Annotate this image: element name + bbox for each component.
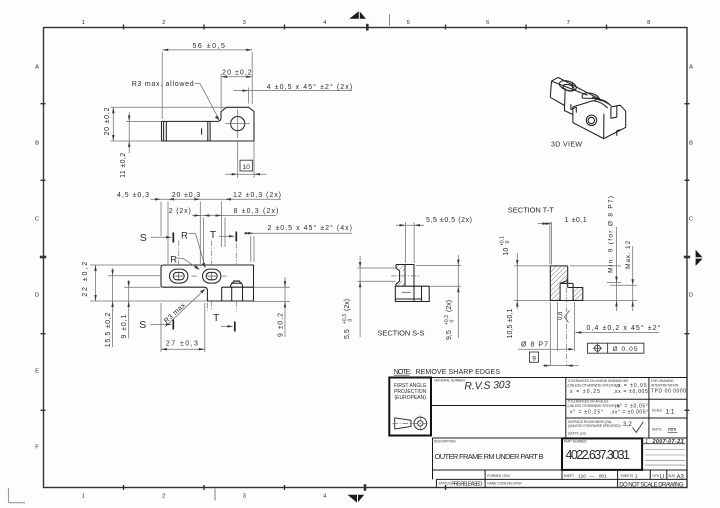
centering mark bottom bbox=[215, 489, 364, 503]
section mark S bottom bbox=[139, 319, 173, 331]
dimension 1 ±0,1 bbox=[538, 217, 587, 264]
svg-text:(UNLESS OTHERWISE SPECIFIED): (UNLESS OTHERWISE SPECIFIED) bbox=[568, 383, 621, 387]
svg-text:10: 10 bbox=[503, 248, 510, 256]
svg-text:(UNLESS OTHERWISE SPECIFIED): (UNLESS OTHERWISE SPECIFIED) bbox=[568, 404, 621, 408]
section mark T bottom bbox=[213, 312, 235, 332]
zone numbers top bbox=[82, 20, 651, 26]
leader R (inner) bbox=[170, 254, 200, 270]
dimension 5,5 ±0,5 (2x) above S-S bbox=[396, 217, 472, 263]
svg-text:20 ±0,2: 20 ±0,2 bbox=[222, 70, 252, 77]
svg-text:NOTE:: NOTE: bbox=[394, 369, 412, 376]
svg-text:4 ±0,5 x 45° ±2° (2x): 4 ±0,5 x 45° ±2° (2x) bbox=[267, 83, 353, 91]
svg-text:1: 1 bbox=[635, 474, 638, 480]
svg-text:7: 7 bbox=[567, 20, 570, 26]
svg-text:(UNLESS OTHERWISE SPECIFIED): (UNLESS OTHERWISE SPECIFIED) bbox=[568, 424, 621, 428]
svg-text:8 ±0,3 (2x): 8 ±0,3 (2x) bbox=[234, 208, 279, 215]
svg-text:SECTION T-T: SECTION T-T bbox=[508, 206, 554, 215]
dimension row 4,5 / 20 / 12 bbox=[117, 192, 281, 201]
zone letters left bbox=[35, 65, 39, 451]
svg-text:2: 2 bbox=[162, 20, 165, 26]
svg-text:TPD 00 0000: TPD 00 0000 bbox=[651, 389, 686, 395]
svg-text:3: 3 bbox=[243, 20, 246, 26]
svg-text:R: R bbox=[170, 254, 177, 265]
svg-text:—: — bbox=[590, 475, 595, 480]
svg-text:2 (2x): 2 (2x) bbox=[169, 208, 191, 215]
roughness 0,8 in hole bbox=[558, 311, 570, 323]
centering mark right bbox=[696, 250, 703, 266]
svg-text:FIRST ANGLE: FIRST ANGLE bbox=[394, 383, 427, 389]
front view boss dome bbox=[230, 281, 242, 287]
section S-S part bbox=[391, 265, 429, 302]
svg-text:DO NOT SCALE DRAWING: DO NOT SCALE DRAWING bbox=[619, 483, 684, 489]
front view slot 1 bbox=[170, 269, 188, 283]
position tolerance frame bbox=[588, 343, 644, 353]
title block grid bbox=[389, 378, 687, 488]
svg-text:x = ±0,25: x = ±0,25 bbox=[570, 389, 600, 395]
dimension row 2 (2x) / 8 bbox=[169, 208, 279, 217]
dimension 5,5 +0,3/0 (2x) left of S-S bbox=[342, 256, 396, 339]
svg-text:0,8: 0,8 bbox=[558, 311, 564, 320]
svg-text:9 ±0,2: 9 ±0,2 bbox=[277, 313, 284, 337]
centering mark top bbox=[349, 11, 389, 26]
corner crop mark bottom-left bbox=[9, 488, 26, 503]
svg-text:3: 3 bbox=[243, 494, 246, 500]
revision table bbox=[642, 439, 685, 465]
svg-text:B: B bbox=[35, 141, 39, 147]
svg-text:S: S bbox=[140, 232, 147, 244]
svg-text:20 ±0,3: 20 ±0,3 bbox=[172, 192, 201, 199]
svg-text:56 ±0,5: 56 ±0,5 bbox=[192, 43, 225, 50]
units mm bbox=[652, 427, 678, 433]
svg-text:6: 6 bbox=[486, 20, 489, 26]
svg-text:9: 9 bbox=[532, 355, 536, 362]
svg-text:Max. 12: Max. 12 bbox=[625, 241, 632, 269]
extension lines above part bbox=[161, 202, 254, 265]
dimension 9 ±0,2 (right) bbox=[254, 277, 291, 337]
svg-text:R: R bbox=[181, 230, 188, 241]
svg-text:15,5 ±0,2: 15,5 ±0,2 bbox=[105, 313, 112, 348]
svg-text:001: 001 bbox=[599, 474, 607, 480]
svg-text:2007-07-23: 2007-07-23 bbox=[652, 439, 684, 445]
svg-text:D: D bbox=[689, 293, 693, 299]
svg-text:REMOVE SHARP EDGES: REMOVE SHARP EDGES bbox=[416, 369, 501, 376]
dimension 22 ±0,2 (left) bbox=[82, 262, 207, 301]
zone ticks left bbox=[40, 104, 46, 411]
svg-text:0,4 ±0,2 x 45° ±2°: 0,4 ±0,2 x 45° ±2° bbox=[587, 324, 661, 332]
svg-text:(2x): (2x) bbox=[446, 300, 453, 312]
svg-text:INTERPRETATION: INTERPRETATION bbox=[651, 383, 679, 387]
svg-text:20 ±0,2: 20 ±0,2 bbox=[104, 107, 111, 135]
svg-text:U: U bbox=[660, 475, 664, 481]
svg-text:F: F bbox=[35, 445, 39, 451]
svg-text:DESCRIPTION: DESCRIPTION bbox=[434, 440, 456, 444]
svg-text:1:1: 1:1 bbox=[666, 408, 675, 415]
svg-text:SHEET: SHEET bbox=[564, 474, 575, 478]
svg-text:MATERIAL NUMBER: MATERIAL NUMBER bbox=[435, 379, 466, 383]
zone numbers bottom bbox=[82, 494, 327, 500]
svg-text:110: 110 bbox=[578, 474, 586, 480]
svg-text:3D VIEW: 3D VIEW bbox=[551, 141, 582, 148]
part number bbox=[562, 438, 642, 470]
dimension 11 ±0,2 (left, vertical) bbox=[120, 112, 162, 178]
svg-text:UNITS: UNITS bbox=[652, 428, 662, 432]
zone letters right bbox=[689, 65, 693, 299]
dimension 56 ±0,5 bbox=[162, 43, 252, 119]
svg-text:5: 5 bbox=[407, 20, 410, 26]
svg-text:SCALE: SCALE bbox=[652, 408, 662, 412]
dimension Max. 12 bbox=[583, 241, 637, 311]
leader R (outer) bbox=[181, 230, 206, 268]
svg-text:9,5: 9,5 bbox=[446, 330, 453, 340]
svg-text:PROJECTION: PROJECTION bbox=[394, 389, 427, 395]
leader R3 max. allowed bbox=[132, 81, 220, 121]
svg-text:9 ±0,1: 9 ±0,1 bbox=[121, 314, 128, 338]
svg-text:,xx° = ±0,005°: ,xx° = ±0,005° bbox=[610, 409, 648, 415]
svg-text:STATUS: STATUS bbox=[439, 481, 451, 485]
svg-text:3,2: 3,2 bbox=[623, 421, 632, 428]
svg-text:SECTION S-S: SECTION S-S bbox=[378, 329, 425, 338]
status row bbox=[439, 481, 685, 488]
centre lines above part bbox=[179, 241, 237, 267]
svg-text:PART NUMBER: PART NUMBER bbox=[564, 440, 588, 444]
svg-text:5,5: 5,5 bbox=[344, 329, 351, 339]
dimension 27 ±0,3 bbox=[161, 303, 205, 352]
leader R3 max (front) bbox=[163, 289, 206, 327]
top view hole bbox=[225, 109, 249, 138]
svg-text:D: D bbox=[35, 293, 39, 299]
svg-text:4,5 ±0,3: 4,5 ±0,3 bbox=[117, 192, 149, 199]
dimension 10 +0,1/0 (left of T-T) bbox=[499, 236, 550, 309]
svg-text:A: A bbox=[35, 65, 39, 71]
dimension 15,5 ±0,2 (left) bbox=[105, 268, 114, 347]
svg-text:27 ±0,3: 27 ±0,3 bbox=[166, 341, 198, 348]
svg-text:5,5 ±0,5 (2x): 5,5 ±0,5 (2x) bbox=[426, 217, 472, 224]
dimension Ø 8 P7 bbox=[518, 302, 575, 366]
svg-text:FORMER 12NC: FORMER 12NC bbox=[487, 474, 511, 478]
svg-text:1: 1 bbox=[82, 494, 85, 500]
svg-text:SIZE: SIZE bbox=[668, 474, 675, 478]
svg-text:12 ±0,3 (2x): 12 ±0,3 (2x) bbox=[233, 192, 281, 199]
svg-text:Ø 8 P7: Ø 8 P7 bbox=[521, 341, 548, 348]
svg-text:T: T bbox=[210, 229, 217, 241]
svg-text:8: 8 bbox=[647, 20, 650, 26]
dimension 9,5 +0,3/0 (2x) right of S-S bbox=[416, 255, 461, 340]
svg-text:0: 0 bbox=[449, 320, 455, 323]
svg-text:2 ±0,5 x 45° ±2° (4x): 2 ±0,5 x 45° ±2° (4x) bbox=[268, 224, 353, 232]
svg-text:1: 1 bbox=[645, 439, 648, 445]
svg-text:1 ±0,1: 1 ±0,1 bbox=[565, 217, 587, 224]
front view slot 2 bbox=[203, 269, 221, 283]
dimension Min 9 (for Ø 8 P7) bbox=[570, 196, 621, 311]
dimension 20 ±0,2 (top) bbox=[221, 70, 252, 109]
zone ticks right bbox=[684, 104, 690, 411]
svg-text:0: 0 bbox=[505, 241, 511, 244]
dimension 20 ±0,2 (left, vertical) bbox=[104, 107, 225, 141]
centre lines below part bbox=[207, 301, 236, 312]
svg-text:2: 2 bbox=[162, 494, 165, 500]
dimension 0,4 ±0,2 x 45° ±2° bbox=[558, 302, 661, 351]
dimension 9 ±0,1 (left) bbox=[121, 280, 161, 339]
svg-text:,xx = ±0,005: ,xx = ±0,005 bbox=[613, 389, 648, 395]
note remove sharp edges bbox=[394, 369, 501, 376]
section T-T part bbox=[550, 266, 583, 312]
svg-text:10: 10 bbox=[243, 164, 251, 171]
svg-text:R.V.S 303: R.V.S 303 bbox=[464, 379, 511, 393]
svg-text:B: B bbox=[689, 141, 693, 147]
front view outline bbox=[161, 265, 254, 301]
tolerances angles bbox=[568, 400, 649, 416]
svg-text:C: C bbox=[689, 217, 693, 223]
section mark T top bbox=[210, 229, 237, 242]
svg-text:10,5 ±0,1: 10,5 ±0,1 bbox=[507, 308, 514, 338]
svg-text:R3 max. allowed: R3 max. allowed bbox=[132, 81, 194, 88]
section mark S top bbox=[140, 232, 174, 244]
svg-text:0: 0 bbox=[347, 319, 353, 322]
svg-text:E: E bbox=[35, 369, 39, 375]
dimension 2 ±0,5 x 45° ±2° (4x) bbox=[244, 224, 352, 234]
svg-text:A: A bbox=[689, 65, 693, 71]
description bbox=[434, 440, 544, 462]
svg-text:(UNITS: µm): (UNITS: µm) bbox=[568, 431, 586, 435]
svg-text:A3: A3 bbox=[677, 475, 685, 481]
svg-text:DYS: DYS bbox=[653, 474, 660, 478]
slot centre dashes bbox=[108, 275, 227, 277]
surface roughness bbox=[568, 420, 643, 436]
svg-text:T: T bbox=[213, 312, 220, 324]
svg-text:(2x): (2x) bbox=[344, 299, 351, 311]
svg-text:NAME CODEVELOPER: NAME CODEVELOPER bbox=[487, 481, 522, 485]
dimension 4 ±0,5 x 45° ±2° (2x) bbox=[234, 83, 353, 103]
first angle projection box bbox=[389, 378, 431, 436]
svg-text:Min. 9 (for Ø 8 P7): Min. 9 (for Ø 8 P7) bbox=[608, 196, 615, 273]
tolerances linear bbox=[568, 379, 649, 395]
svg-text:OUTER FRAME RM UNDER PART B: OUTER FRAME RM UNDER PART B bbox=[435, 452, 544, 461]
svg-text:S: S bbox=[139, 319, 146, 331]
svg-text:4022.637.3031: 4022.637.3031 bbox=[566, 448, 631, 462]
material number bbox=[435, 379, 511, 393]
dimension boxed 9 bbox=[530, 352, 579, 367]
svg-text:SHEETS: SHEETS bbox=[621, 474, 634, 478]
dimension boxed 10 bbox=[225, 141, 267, 178]
3D view bbox=[550, 77, 625, 138]
former 12nc / sheet row bbox=[487, 474, 684, 481]
svg-text:PRE-RELEASED: PRE-RELEASED bbox=[451, 481, 482, 487]
svg-text:C: C bbox=[35, 217, 39, 223]
svg-text:11 ±0,2: 11 ±0,2 bbox=[120, 153, 127, 178]
scale bbox=[652, 408, 675, 415]
zone ticks bottom bbox=[124, 484, 446, 491]
svg-text:(EUROPEAN): (EUROPEAN) bbox=[394, 395, 426, 401]
for drawing interpretation bbox=[651, 379, 686, 395]
zone ticks top bbox=[124, 24, 607, 31]
top view outline bbox=[162, 107, 255, 141]
svg-text:x° = ±0,25°: x° = ±0,25° bbox=[570, 409, 603, 415]
svg-text:1: 1 bbox=[82, 20, 85, 26]
